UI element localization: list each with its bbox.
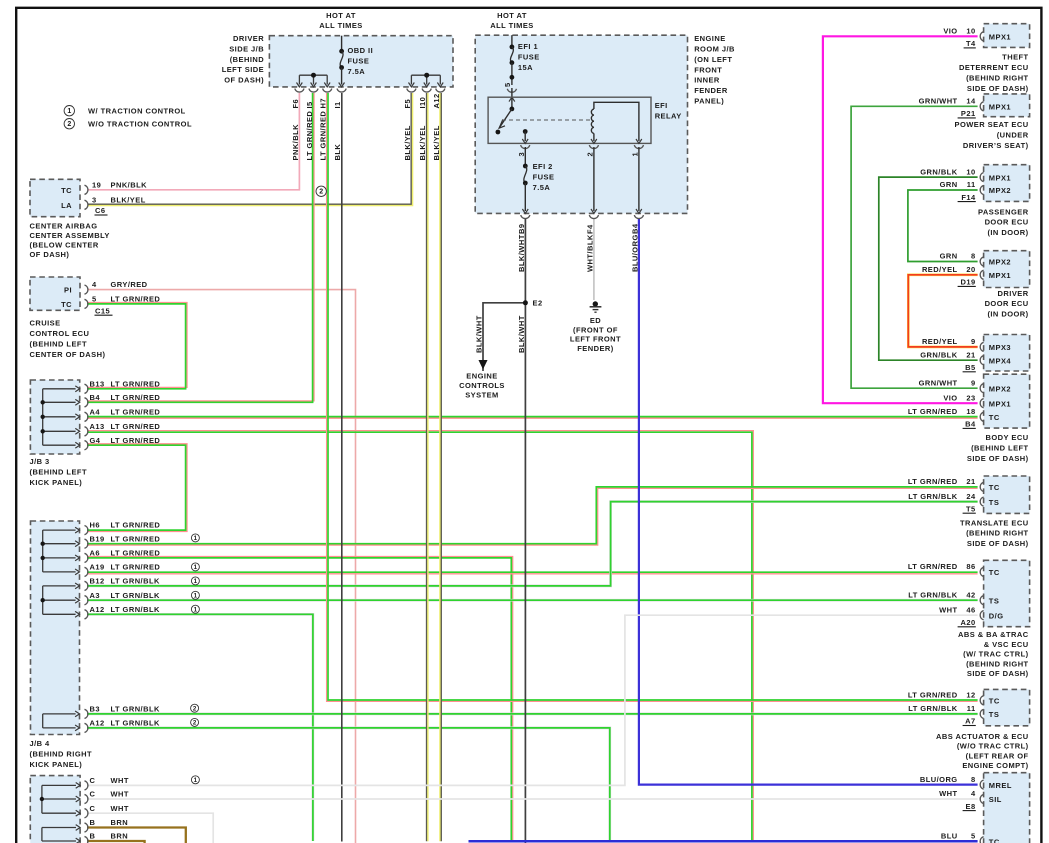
- circled 1 mark on C WHT row: [191, 776, 199, 784]
- svg-text:21: 21: [966, 350, 975, 359]
- connector arcs J/B3: [85, 384, 88, 393]
- svg-text:OF DASH): OF DASH): [224, 76, 264, 85]
- svg-text:RED/YEL: RED/YEL: [922, 337, 958, 346]
- svg-text:RED/YEL: RED/YEL: [922, 265, 958, 274]
- svg-text:GRN/WHT: GRN/WHT: [919, 97, 958, 106]
- svg-text:HOT AT: HOT AT: [326, 11, 356, 20]
- svg-text:GRY/RED: GRY/RED: [111, 280, 148, 289]
- circled 1 marks on J/B4 rows: [191, 534, 199, 542]
- svg-text:1: 1: [194, 535, 198, 542]
- svg-text:C15: C15: [95, 306, 110, 315]
- svg-text:FUSE: FUSE: [518, 52, 540, 61]
- junction dot on bus at I10: [424, 73, 429, 78]
- svg-text:(LEFT REAR OF: (LEFT REAR OF: [966, 751, 1029, 760]
- svg-text:PASSENGER: PASSENGER: [978, 207, 1029, 216]
- wire LT GRN/BLK J/B4 A3 to ABS ECU TS pin42: [87, 599, 978, 602]
- svg-text:SIDE OF DASH): SIDE OF DASH): [967, 539, 1029, 548]
- svg-text:H6: H6: [90, 521, 101, 530]
- wire BLK/YEL pin3 LA to F5: [88, 93, 411, 204]
- svg-text:GRN/BLK: GRN/BLK: [920, 350, 957, 359]
- svg-text:T5: T5: [966, 504, 976, 513]
- svg-text:TC: TC: [61, 186, 72, 195]
- svg-text:B5: B5: [965, 363, 976, 372]
- svg-text:A7: A7: [965, 717, 976, 726]
- svg-text:BLK/YEL: BLK/YEL: [403, 125, 412, 160]
- wire GRN/WHT power seat P21 pin14 to body MPX2 pin9: [851, 106, 978, 388]
- svg-text:(W/O TRAC CTRL): (W/O TRAC CTRL): [957, 742, 1029, 751]
- svg-text:I5: I5: [305, 101, 314, 108]
- svg-text:19: 19: [92, 180, 101, 189]
- svg-text:& VSC ECU: & VSC ECU: [984, 640, 1029, 649]
- connector arcs PI/TC: [85, 285, 88, 294]
- svg-text:A4: A4: [90, 407, 101, 416]
- svg-text:THEFT: THEFT: [1002, 53, 1028, 62]
- svg-text:WHT/BLK: WHT/BLK: [585, 234, 594, 272]
- svg-text:A20: A20: [960, 618, 975, 627]
- wire LT GRN/RED J/B3 A4 to BODY ECU TC pin18: [87, 417, 978, 419]
- wire GRN passenger F14 pin11 to driver door MPX2 pin8: [908, 190, 978, 262]
- svg-text:D19: D19: [960, 278, 975, 287]
- svg-text:18: 18: [966, 407, 975, 416]
- junction block J/B 3 box: [30, 380, 79, 454]
- svg-text:TC: TC: [989, 697, 1000, 706]
- wire LT GRN/BLK J/B4 A12 lower down off page: [87, 728, 610, 841]
- relay pin 5 connector arc: [507, 89, 516, 92]
- svg-text:LT GRN/BLK: LT GRN/BLK: [908, 590, 957, 599]
- wire BLK/WHT branch to engine controls system: [483, 303, 525, 371]
- svg-text:ABS & BA &TRAC: ABS & BA &TRAC: [958, 630, 1029, 639]
- svg-text:MREL: MREL: [989, 781, 1012, 790]
- svg-text:HOT AT: HOT AT: [497, 11, 527, 20]
- svg-text:MPX1: MPX1: [989, 399, 1011, 408]
- svg-text:10: 10: [966, 27, 975, 36]
- connector box TC/LA (center airbag): [30, 179, 80, 216]
- svg-text:WHT: WHT: [111, 790, 129, 799]
- svg-text:J/B 3: J/B 3: [30, 457, 50, 466]
- svg-text:ALL TIMES: ALL TIMES: [319, 21, 363, 30]
- svg-text:LT GRN/RED: LT GRN/RED: [111, 534, 161, 543]
- svg-text:I1: I1: [333, 101, 342, 108]
- svg-text:(W/ TRAC CTRL): (W/ TRAC CTRL): [963, 650, 1029, 659]
- svg-text:J/B 4: J/B 4: [30, 739, 51, 748]
- relay pin2 wire to J/B edge: [593, 147, 595, 211]
- svg-text:BLK/YEL: BLK/YEL: [111, 195, 146, 204]
- svg-text:A19: A19: [90, 563, 105, 572]
- svg-text:CONTROL ECU: CONTROL ECU: [30, 329, 90, 338]
- connector arcs under driver J/B: [295, 89, 304, 92]
- svg-text:3: 3: [92, 195, 97, 204]
- J/B4 internal bus group1: [42, 530, 44, 572]
- svg-text:DRIVER’S SEAT): DRIVER’S SEAT): [963, 141, 1029, 150]
- svg-text:LT GRN/BLK: LT GRN/BLK: [908, 492, 957, 501]
- svg-text:LT GRN/RED: LT GRN/RED: [111, 549, 161, 558]
- svg-text:E8: E8: [966, 802, 976, 811]
- connector box MPX3/MPX4 (body ECU B5): [984, 335, 1030, 372]
- svg-text:EFI 1: EFI 1: [518, 42, 538, 51]
- relay coil top jumper to pin 1: [594, 102, 639, 141]
- svg-text:F5: F5: [403, 99, 412, 109]
- wire LT GRN/RED J/B3 G4 to J/B4 H6: [87, 444, 187, 532]
- svg-text:4: 4: [971, 789, 976, 798]
- svg-text:46: 46: [966, 605, 975, 614]
- wire BLU to TC pin5 (bottom): [469, 840, 978, 843]
- svg-text:SYSTEM: SYSTEM: [465, 391, 499, 400]
- svg-text:LT GRN/RED: LT GRN/RED: [111, 422, 161, 431]
- J/B3 internal bus: [42, 389, 44, 445]
- wire BLU/ORG B4 to MREL pin8: [639, 219, 978, 785]
- junction block box (bottom left, cut off): [30, 776, 80, 843]
- connector box TC/TS (translate ECU): [984, 476, 1030, 513]
- svg-text:86: 86: [966, 562, 975, 571]
- svg-text:FRONT: FRONT: [694, 65, 722, 74]
- svg-text:SIDE J/B: SIDE J/B: [229, 44, 264, 53]
- svg-text:(BEHIND: (BEHIND: [230, 55, 265, 64]
- wire GRN/BLK passenger F14 pin10 to body MPX4 pin21: [879, 177, 978, 360]
- svg-text:C: C: [90, 804, 96, 813]
- connector arcs right column: [980, 32, 983, 41]
- svg-text:B: B: [90, 832, 96, 841]
- bottom box internal bus C: [41, 785, 43, 813]
- svg-text:SIDE OF DASH): SIDE OF DASH): [967, 669, 1029, 678]
- EFI 2 fuse 7.5A: [524, 147, 526, 166]
- svg-text:5: 5: [503, 82, 512, 87]
- svg-text:PNK/BLK: PNK/BLK: [291, 124, 300, 161]
- svg-text:B9: B9: [517, 224, 526, 235]
- wire WHT C row1 to ABS ECU D/G pin46: [87, 615, 978, 785]
- svg-text:LT GRN/RED: LT GRN/RED: [111, 379, 161, 388]
- svg-text:B4: B4: [90, 393, 101, 402]
- svg-text:TC: TC: [989, 483, 1000, 492]
- svg-text:P21: P21: [961, 109, 976, 118]
- svg-text:VIO: VIO: [943, 27, 957, 36]
- svg-text:LA: LA: [61, 201, 72, 210]
- svg-text:FUSE: FUSE: [348, 56, 370, 65]
- svg-text:LT GRN/RED: LT GRN/RED: [319, 111, 328, 161]
- relay coil bottom to pin 2: [593, 133, 595, 141]
- svg-text:11: 11: [967, 704, 976, 713]
- svg-text:7.5A: 7.5A: [533, 183, 551, 192]
- svg-text:A6: A6: [90, 549, 101, 558]
- svg-text:LT GRN/RED: LT GRN/RED: [111, 436, 161, 445]
- svg-text:CENTER AIRBAG: CENTER AIRBAG: [30, 222, 98, 231]
- svg-text:BLU/ORG: BLU/ORG: [630, 234, 639, 272]
- connector box MPX2/MPX1 (driver door ECU): [984, 251, 1030, 288]
- svg-text:PANEL): PANEL): [694, 97, 724, 106]
- svg-text:ABS ACTUATOR & ECU: ABS ACTUATOR & ECU: [936, 732, 1029, 741]
- svg-text:A12: A12: [432, 93, 441, 108]
- svg-text:W/ TRACTION CONTROL: W/ TRACTION CONTROL: [88, 106, 186, 115]
- svg-text:LT GRN/BLK: LT GRN/BLK: [111, 605, 160, 614]
- svg-text:A3: A3: [90, 591, 101, 600]
- connector box TC/TS/DG (ABS & BA & TRAC & VSC ECU): [984, 560, 1030, 626]
- svg-text:PNK/BLK: PNK/BLK: [111, 180, 148, 189]
- junction dot below EFI1 fuse: [510, 75, 515, 80]
- svg-text:DOOR ECU: DOOR ECU: [985, 218, 1029, 227]
- svg-text:B4: B4: [630, 223, 639, 234]
- svg-text:10: 10: [966, 167, 975, 176]
- wire WHT C row2 to SIL pin4: [87, 798, 978, 800]
- svg-text:(BEHIND RIGHT: (BEHIND RIGHT: [966, 529, 1029, 538]
- svg-text:TC: TC: [989, 413, 1000, 422]
- connector box MPX1 (power seat ECU): [984, 94, 1030, 117]
- svg-text:OBD II: OBD II: [348, 46, 374, 55]
- wire BLK/YEL I10 down off page: [426, 93, 428, 841]
- legend circled 2: [64, 119, 74, 129]
- svg-text:(UNDER: (UNDER: [997, 131, 1029, 140]
- svg-text:5: 5: [971, 832, 976, 841]
- svg-text:11: 11: [967, 180, 976, 189]
- wire LT GRN/RED J/B3 B4 up to I5: [87, 93, 314, 401]
- legend circled 1: [64, 106, 74, 116]
- svg-text:(BEHIND LEFT: (BEHIND LEFT: [30, 467, 87, 476]
- svg-text:23: 23: [966, 393, 975, 402]
- bus F6/I5/H7 inside driver J/B: [299, 74, 327, 76]
- svg-text:MPX1: MPX1: [989, 33, 1011, 42]
- svg-text:BLU: BLU: [941, 832, 958, 841]
- circled 2 marks on J/B4 lower rows: [191, 704, 199, 712]
- svg-text:ROOM J/B: ROOM J/B: [694, 44, 735, 53]
- svg-text:MPX4: MPX4: [989, 356, 1012, 365]
- svg-text:1: 1: [194, 578, 198, 585]
- svg-text:C: C: [90, 776, 96, 785]
- svg-text:BRN: BRN: [111, 832, 129, 841]
- wire GRY/RED pin4 PI down off page: [88, 290, 356, 843]
- svg-text:WHT: WHT: [111, 804, 129, 813]
- relay EFI RELAY box: [488, 97, 651, 143]
- svg-text:1: 1: [630, 152, 639, 157]
- svg-text:LT GRN/RED: LT GRN/RED: [111, 521, 161, 530]
- connector arcs under engine room J/B: [521, 215, 530, 218]
- svg-text:LT GRN/RED: LT GRN/RED: [111, 393, 161, 402]
- svg-text:MPX1: MPX1: [989, 103, 1011, 112]
- svg-text:TC: TC: [989, 838, 1000, 843]
- svg-text:LT GRN/RED: LT GRN/RED: [111, 295, 161, 304]
- junction dot on bus at I5: [311, 73, 316, 78]
- svg-text:CENTER OF DASH): CENTER OF DASH): [30, 350, 106, 359]
- svg-text:21: 21: [966, 477, 975, 486]
- svg-text:LT GRN/RED: LT GRN/RED: [908, 477, 958, 486]
- svg-text:TS: TS: [989, 596, 999, 605]
- EFI 1 fuse 15A: [511, 35, 513, 47]
- svg-text:RELAY: RELAY: [655, 112, 682, 121]
- svg-text:EFI: EFI: [655, 101, 668, 110]
- svg-text:B3: B3: [90, 705, 101, 714]
- wire LT GRN/BLK J/B4 B12 to TRANSLATE ECU TS pin24: [87, 502, 978, 586]
- svg-text:9: 9: [971, 337, 976, 346]
- svg-text:TS: TS: [989, 710, 999, 719]
- wire LT GRN/RED J/B4 A19 to ABS ECU TC pin86: [87, 573, 978, 575]
- svg-text:B19: B19: [90, 534, 105, 543]
- svg-text:1: 1: [194, 564, 198, 571]
- relay pin1 wire to J/B edge: [638, 147, 640, 211]
- svg-text:LT GRN/RED: LT GRN/RED: [908, 407, 958, 416]
- J/B3 bus junction dots: [41, 400, 45, 404]
- svg-text:DRIVER: DRIVER: [233, 34, 264, 43]
- svg-text:LT GRN/RED: LT GRN/RED: [908, 691, 958, 700]
- svg-text:(FRONT OF: (FRONT OF: [573, 326, 618, 335]
- svg-text:1: 1: [194, 777, 198, 784]
- circled 2 on H7 wire: [316, 186, 326, 196]
- svg-text:TC: TC: [989, 568, 1000, 577]
- svg-text:8: 8: [971, 775, 976, 784]
- svg-text:(IN DOOR): (IN DOOR): [987, 228, 1028, 237]
- connector box PI/TC (cruise control ECU): [30, 277, 80, 310]
- svg-text:ENGINE: ENGINE: [694, 34, 725, 43]
- wire BLK I1 down off page: [341, 93, 343, 842]
- svg-text:LT GRN/RED: LT GRN/RED: [305, 111, 314, 161]
- svg-text:GRN/BLK: GRN/BLK: [920, 167, 957, 176]
- svg-text:24: 24: [966, 492, 976, 501]
- svg-text:LT GRN/RED: LT GRN/RED: [111, 407, 161, 416]
- svg-text:ED: ED: [590, 316, 601, 325]
- svg-text:GRN/WHT: GRN/WHT: [919, 378, 958, 387]
- wire RED/YEL driver door D19 pin20 to body MPX3 pin9: [908, 275, 977, 347]
- svg-text:(IN DOOR): (IN DOOR): [987, 310, 1028, 319]
- svg-text:2: 2: [193, 720, 197, 727]
- bus F5/I10/A12 inside driver J/B: [411, 74, 440, 76]
- svg-text:5: 5: [92, 295, 97, 304]
- svg-text:MPX1: MPX1: [989, 271, 1011, 280]
- svg-text:TS: TS: [989, 498, 999, 507]
- svg-text:BLK: BLK: [333, 144, 342, 161]
- svg-text:BLK/WHT: BLK/WHT: [475, 315, 484, 353]
- svg-text:VIO: VIO: [943, 393, 957, 402]
- connector arcs J/B4: [85, 526, 88, 535]
- OBD II fuse feed wire: [341, 36, 343, 52]
- svg-text:MPX2: MPX2: [989, 186, 1011, 195]
- svg-text:C6: C6: [95, 206, 106, 215]
- wire VIO theft T4 pin10 to body MPX1 pin23: [823, 36, 978, 403]
- connector arcs bottom box: [85, 781, 88, 790]
- wire BLK/WHT B9 down off page: [524, 219, 526, 843]
- wire BRN B row1 down off page: [87, 828, 186, 843]
- svg-text:DRIVER: DRIVER: [998, 289, 1029, 298]
- svg-text:LT GRN/RED: LT GRN/RED: [908, 562, 958, 571]
- svg-text:I10: I10: [418, 97, 427, 109]
- svg-text:(BEHIND RIGHT: (BEHIND RIGHT: [966, 74, 1029, 83]
- wire WHT/BLK F4 to ED ground: [593, 219, 595, 300]
- svg-text:INNER: INNER: [694, 76, 720, 85]
- svg-text:LT GRN/BLK: LT GRN/BLK: [111, 591, 160, 600]
- fuse OBD II 7.5A: [339, 49, 344, 54]
- svg-text:BLU/ORG: BLU/ORG: [920, 775, 958, 784]
- svg-text:F6: F6: [291, 99, 300, 109]
- junction block: DRIVER SIDE J/B box: [269, 36, 453, 87]
- wire BRN B row2 down off page: [87, 841, 145, 843]
- svg-text:8: 8: [971, 252, 976, 261]
- junction block: ENGINE ROOM J/B box: [475, 35, 687, 213]
- connector box MPX1 (theft deterrent ECU): [984, 24, 1030, 48]
- svg-text:LT GRN/BLK: LT GRN/BLK: [111, 719, 160, 728]
- svg-text:POWER SEAT ECU: POWER SEAT ECU: [955, 120, 1029, 129]
- wire LT GRN/RED J/B4 A6 down off page: [87, 557, 513, 842]
- svg-text:2: 2: [319, 189, 323, 196]
- relay switch arm: [510, 107, 515, 112]
- svg-text:MPX1: MPX1: [989, 173, 1011, 182]
- svg-text:LT GRN/BLK: LT GRN/BLK: [908, 704, 957, 713]
- svg-text:ALL TIMES: ALL TIMES: [490, 21, 534, 30]
- svg-text:LT GRN/RED: LT GRN/RED: [111, 563, 161, 572]
- svg-text:(BEHIND RIGHT: (BEHIND RIGHT: [30, 750, 93, 759]
- svg-text:SIL: SIL: [989, 795, 1002, 804]
- node E2 junction: [523, 300, 528, 305]
- svg-text:WHT: WHT: [939, 605, 957, 614]
- svg-text:LT GRN/BLK: LT GRN/BLK: [111, 705, 160, 714]
- svg-text:LT GRN/BLK: LT GRN/BLK: [111, 577, 160, 586]
- svg-text:9: 9: [971, 378, 976, 387]
- arrowhead engine controls system: [479, 360, 487, 368]
- svg-text:ENGINE: ENGINE: [466, 372, 497, 381]
- svg-text:(BEHIND LEFT: (BEHIND LEFT: [971, 443, 1028, 452]
- svg-text:2: 2: [67, 121, 71, 128]
- svg-text:MPX2: MPX2: [989, 258, 1011, 267]
- svg-text:KICK PANEL): KICK PANEL): [30, 760, 83, 769]
- svg-text:42: 42: [966, 590, 975, 599]
- svg-text:EFI 2: EFI 2: [533, 162, 553, 171]
- svg-text:CRUISE: CRUISE: [30, 318, 61, 327]
- svg-text:BLK/WHT: BLK/WHT: [517, 234, 526, 272]
- svg-text:(BEHIND LEFT: (BEHIND LEFT: [30, 339, 87, 348]
- relay dashed link: [502, 119, 591, 121]
- svg-text:LEFT FRONT: LEFT FRONT: [570, 335, 621, 344]
- svg-text:BLK/YEL: BLK/YEL: [418, 125, 427, 160]
- J/B4 internal bus group2: [42, 586, 44, 614]
- svg-text:A13: A13: [90, 422, 105, 431]
- svg-text:20: 20: [966, 265, 975, 274]
- svg-text:3: 3: [517, 152, 526, 157]
- wire WHT C row3 down off page: [87, 813, 213, 843]
- svg-text:PI: PI: [64, 286, 72, 295]
- svg-text:4: 4: [92, 280, 97, 289]
- svg-text:DETERRENT ECU: DETERRENT ECU: [959, 63, 1029, 72]
- svg-text:FENDER): FENDER): [577, 344, 614, 353]
- svg-text:LEFT SIDE: LEFT SIDE: [222, 65, 264, 74]
- svg-text:(BEHIND RIGHT: (BEHIND RIGHT: [966, 659, 1029, 668]
- svg-text:ENGINE COMPT): ENGINE COMPT): [962, 761, 1028, 770]
- svg-text:W/O TRACTION CONTROL: W/O TRACTION CONTROL: [88, 119, 192, 128]
- svg-text:A12: A12: [90, 605, 105, 614]
- wire LT GRN/BLK J/B4 A12 down off page: [87, 614, 313, 841]
- svg-text:BRN: BRN: [111, 818, 129, 827]
- svg-text:BODY ECU: BODY ECU: [986, 433, 1029, 442]
- bottom box internal bus B: [41, 828, 43, 842]
- wire PNK/BLK pin19 TC to F6: [88, 93, 299, 190]
- svg-text:CENTER ASSEMBLY: CENTER ASSEMBLY: [30, 231, 110, 240]
- svg-text:T4: T4: [966, 39, 976, 48]
- svg-text:2: 2: [585, 152, 594, 157]
- svg-text:1: 1: [67, 108, 71, 115]
- svg-text:TRANSLATE ECU: TRANSLATE ECU: [960, 518, 1029, 527]
- svg-text:C: C: [90, 790, 96, 799]
- relay coil: [591, 109, 594, 133]
- svg-text:DOOR ECU: DOOR ECU: [985, 299, 1029, 308]
- relay output contact to pin 3: [523, 129, 528, 134]
- wire LT GRN/RED J/B4 B19 to TRANSLATE ECU TC pin21: [87, 488, 978, 545]
- svg-text:1: 1: [194, 593, 198, 600]
- svg-text:2: 2: [193, 705, 197, 712]
- svg-text:B4: B4: [965, 420, 976, 429]
- connector box MPX1/MPX2 (passenger door ECU): [984, 165, 1030, 202]
- svg-text:12: 12: [966, 691, 975, 700]
- connector arcs under relay: [521, 145, 530, 148]
- wire LT GRN/RED J/B3 A13 down off page: [87, 431, 753, 841]
- svg-text:KICK PANEL): KICK PANEL): [30, 478, 83, 487]
- connector box TC/TS (ABS actuator ECU): [984, 689, 1030, 725]
- svg-text:(ON LEFT: (ON LEFT: [694, 55, 732, 64]
- svg-text:F4: F4: [585, 224, 594, 234]
- svg-text:F14: F14: [961, 193, 976, 202]
- wire LT GRN/RED H7 to ABS ACTUATOR TC pin12: [327, 93, 978, 701]
